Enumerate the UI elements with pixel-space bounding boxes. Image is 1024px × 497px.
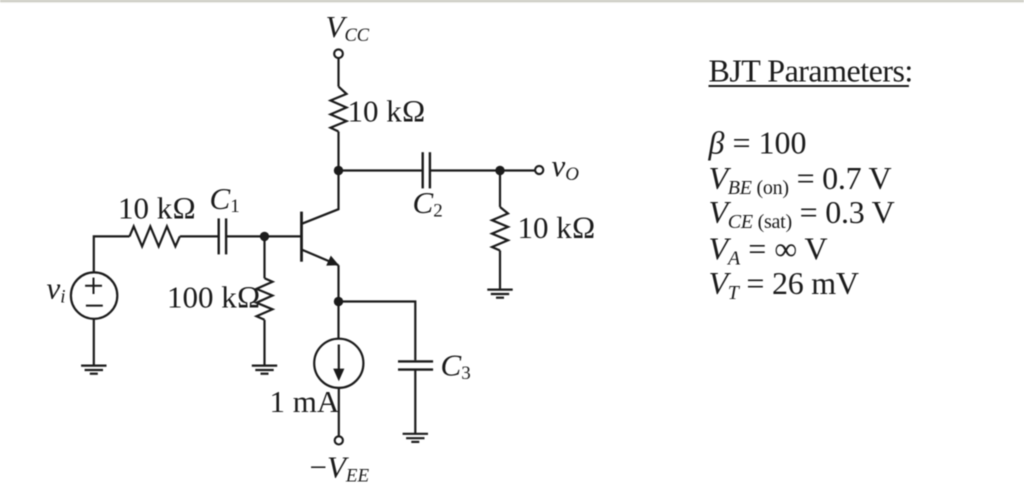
svg-text:β = 100: β = 100 <box>708 125 807 161</box>
svg-text:VA = ∞ V: VA = ∞ V <box>709 231 828 270</box>
svg-text:vi: vi <box>47 271 66 308</box>
svg-text:C2: C2 <box>413 185 443 222</box>
svg-text:10 kΩ: 10 kΩ <box>348 94 426 129</box>
svg-text:1 mA: 1 mA <box>270 384 340 419</box>
svg-text:C3: C3 <box>441 348 471 385</box>
svg-text:C1: C1 <box>210 181 240 217</box>
svg-text:vO: vO <box>552 148 580 185</box>
svg-text:10 kΩ: 10 kΩ <box>118 190 196 225</box>
svg-text:VT = 26 mV: VT = 26 mV <box>709 265 859 304</box>
svg-text:10 kΩ: 10 kΩ <box>518 210 596 245</box>
svg-text:VBE (on) = 0.7 V: VBE (on) = 0.7 V <box>709 160 892 199</box>
svg-text:100 kΩ: 100 kΩ <box>167 280 261 315</box>
svg-text:VCE (sat) = 0.3 V: VCE (sat) = 0.3 V <box>709 194 895 233</box>
svg-text:BJT Parameters:: BJT Parameters: <box>709 52 913 88</box>
svg-text:−VEE: −VEE <box>310 450 370 487</box>
svg-text:VCC: VCC <box>326 9 370 46</box>
